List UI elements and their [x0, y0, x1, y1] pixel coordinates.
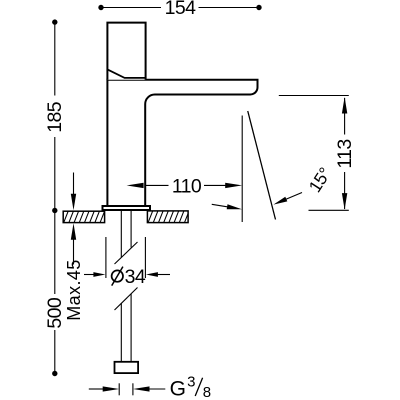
- dimension 110: [127, 183, 144, 188]
- 15 degree jet line: [248, 111, 276, 220]
- svg-text:Max.45: Max.45: [64, 259, 84, 320]
- svg-text:G: G: [170, 378, 186, 400]
- base plate escutcheon: [103, 206, 151, 210]
- handle lever: [107, 23, 145, 80]
- leader to outlet line: [212, 204, 228, 207]
- pipe break mark lower: [115, 288, 138, 311]
- svg-text:154: 154: [165, 0, 196, 19]
- supply pipe left line: [120, 211, 122, 257]
- svg-text:110: 110: [172, 175, 202, 197]
- dimension 154 line: [101, 7, 259, 9]
- dimension Max.45: [73, 173, 75, 197]
- dimension 113: [279, 96, 349, 211]
- svg-text:3: 3: [187, 373, 195, 390]
- dimension 185 / 500 vertical line: [54, 22, 56, 373]
- countertop right section: [142, 210, 194, 224]
- leader to jet line: [280, 193, 302, 202]
- countertop left section: [58, 210, 110, 224]
- svg-text:500: 500: [44, 297, 66, 328]
- svg-text:34: 34: [125, 266, 146, 288]
- dimension G 3/8: [89, 383, 166, 395]
- pipe break mark upper: [115, 242, 138, 264]
- svg-text:185: 185: [44, 101, 66, 132]
- supply pipe right line: [130, 211, 132, 248]
- faucet body and spout outline: [107, 80, 257, 206]
- extension line at spout outlet: [241, 116, 243, 223]
- inlet nut: [115, 362, 139, 373]
- dimension O34: [84, 237, 170, 278]
- svg-text:113: 113: [334, 139, 356, 168]
- svg-text:8: 8: [203, 384, 211, 400]
